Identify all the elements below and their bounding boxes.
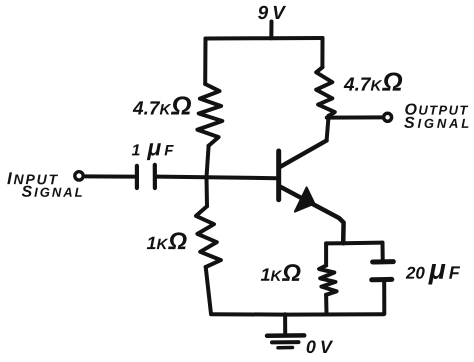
svg-text:1KΩ: 1KΩ bbox=[146, 228, 187, 255]
wire RC top bar bbox=[326, 241, 382, 246]
wire collector node vertical bbox=[327, 116, 329, 141]
svg-text:SIGNAL: SIGNAL bbox=[404, 115, 472, 132]
wire top rail 9V bbox=[206, 36, 323, 41]
wire input to cap bbox=[86, 174, 135, 178]
input terminal bbox=[75, 172, 83, 180]
svg-text:1μF: 1μF bbox=[132, 134, 175, 160]
transistor Q1 base bar bbox=[276, 151, 281, 200]
capacitor C2 20uF bottom plate bbox=[372, 277, 392, 282]
svg-text:1KΩ: 1KΩ bbox=[260, 260, 301, 287]
wire ground stub bbox=[283, 314, 287, 333]
capacitor C1 1uF left plate bbox=[135, 166, 139, 188]
wire emitter resistor upper bbox=[324, 243, 328, 265]
wire output tap bbox=[327, 115, 382, 119]
resistor R4 1k emitter bbox=[319, 266, 337, 295]
ground bar 2 bbox=[272, 340, 299, 344]
svg-text:4.7KΩ: 4.7KΩ bbox=[343, 67, 403, 97]
resistor R2 1k left bbox=[196, 206, 221, 267]
svg-text:0V: 0V bbox=[306, 337, 336, 357]
capacitor C1 1uF right plate bbox=[153, 165, 157, 188]
wire base node down bbox=[205, 177, 210, 206]
transistor Q1 emitter arrow bbox=[295, 187, 315, 211]
wire cap branch lower bbox=[382, 282, 386, 314]
wire cap branch upper bbox=[381, 243, 385, 259]
wire R2 to bottom rail bbox=[206, 267, 211, 314]
wire right branch upper bbox=[320, 38, 324, 67]
svg-text:20μF: 20μF bbox=[405, 254, 461, 285]
ground bar 3 bbox=[278, 346, 293, 350]
wire emitter bbox=[280, 187, 344, 244]
wire base bbox=[158, 177, 277, 179]
wire 9V stub bbox=[269, 22, 273, 39]
ground bar 1 bbox=[267, 333, 304, 338]
svg-text:4.7KΩ: 4.7KΩ bbox=[132, 91, 192, 121]
wire bottom rail bbox=[211, 312, 384, 316]
svg-text:9V: 9V bbox=[258, 3, 289, 24]
resistor R1 4.7k left bbox=[197, 84, 222, 146]
output terminal bbox=[384, 113, 392, 121]
resistor R3 4.7k right bbox=[316, 67, 335, 116]
wire left branch upper bbox=[203, 39, 207, 85]
svg-text:SIGNAL: SIGNAL bbox=[21, 184, 84, 201]
wire R1 to base node bbox=[207, 146, 209, 178]
capacitor C2 20uF top plate bbox=[373, 259, 394, 264]
wire R4 to bottom rail bbox=[324, 295, 328, 314]
wire cap to base node bbox=[157, 175, 158, 179]
wire collector diagonal bbox=[280, 141, 326, 167]
